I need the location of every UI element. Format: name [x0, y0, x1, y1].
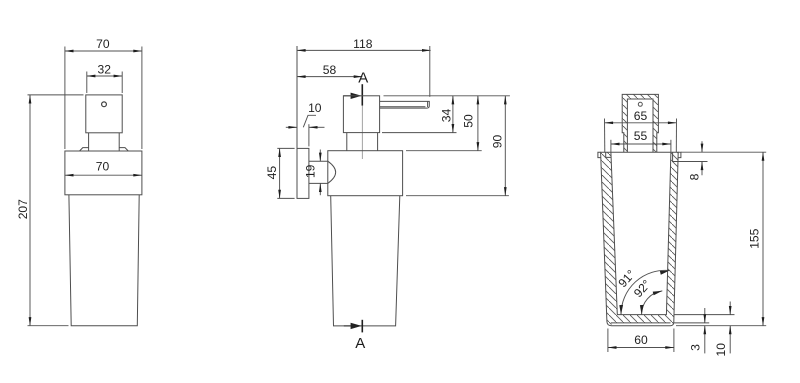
dim 70 collar line: [65, 174, 142, 176]
dim 3 arrow bottom: [704, 326, 706, 354]
dim 32 line: [87, 75, 122, 77]
extension line left of 32: [86, 72, 88, 94]
extension line right of 32: [121, 72, 123, 94]
collar side: [328, 151, 403, 196]
dim 60 line: [608, 347, 674, 349]
svg-text:A: A: [358, 70, 368, 87]
dim 8 arrow bottom: [701, 162, 703, 176]
section arrow bottom: [351, 323, 362, 329]
svg-text:60: 60: [634, 333, 648, 347]
dim 10 arrow top: [729, 302, 731, 315]
extension recess right: [674, 322, 709, 324]
dim 55 line: [611, 143, 671, 145]
svg-text:8: 8: [687, 173, 701, 180]
wall plate: [297, 148, 309, 198]
spout: [380, 101, 430, 108]
extension floor right: [674, 314, 735, 316]
dim 90 line: [504, 96, 506, 196]
pump neck side: [347, 133, 378, 151]
dim 50 line: [477, 96, 479, 151]
extension line spout tip: [429, 46, 431, 97]
svg-text:90: 90: [490, 135, 504, 149]
extension bottom right long: [676, 325, 766, 327]
svg-text:65: 65: [634, 109, 648, 123]
body side: [331, 196, 400, 326]
angle 91 arrow top: [660, 271, 670, 275]
svg-text:19: 19: [304, 164, 318, 178]
svg-text:70: 70: [96, 160, 110, 174]
extension head top right: [384, 95, 510, 97]
pump head hole section: [638, 102, 642, 106]
dim 155 line: [762, 152, 764, 326]
flange bump right: [119, 148, 128, 151]
dim 10 arrow bottom: [729, 326, 731, 354]
body: [69, 195, 139, 326]
dim 207 line: [29, 95, 31, 326]
svg-text:55: 55: [634, 129, 648, 143]
svg-text:155: 155: [747, 228, 761, 248]
section line top: [361, 84, 363, 105]
section line bottom: [361, 320, 363, 333]
extension 65 left: [604, 119, 606, 153]
section arrow top: [351, 93, 362, 99]
angle 92 arc: [642, 291, 663, 315]
dim 10 leader: [303, 115, 316, 127]
vessel bottom recess line: [611, 322, 671, 324]
pump head hole: [102, 102, 107, 107]
extension step right: [678, 161, 707, 163]
pump head material hatch: [622, 94, 658, 152]
rim tab left: [598, 152, 601, 157]
pump head section outline: [622, 94, 658, 152]
extension 55 right: [670, 140, 672, 152]
vessel outer shell: [601, 152, 679, 326]
dim 45 line: [279, 148, 281, 198]
pump head cavity outline: [627, 99, 653, 152]
svg-text:207: 207: [16, 199, 30, 219]
pump neck: [89, 133, 120, 151]
extension line right of 70: [141, 47, 143, 150]
vessel cavity: [611, 152, 671, 314]
dim 19 arrow bottom: [319, 183, 321, 195]
svg-text:34: 34: [440, 109, 454, 123]
svg-text:10: 10: [308, 101, 322, 115]
svg-text:A: A: [355, 335, 365, 352]
dim 34 line: [452, 96, 454, 133]
extension head bottom right: [382, 132, 457, 134]
extension 55 left: [610, 140, 612, 152]
extension line left of 70: [64, 47, 66, 150]
dim 10 arrow right: [309, 126, 325, 128]
pump head side: [343, 96, 379, 133]
dim 10 arrow left: [286, 126, 297, 128]
dim 65 line: [605, 122, 677, 124]
extension collar bottom right: [406, 195, 509, 197]
plate right extension: [308, 124, 310, 146]
svg-text:118: 118: [353, 37, 373, 51]
svg-text:50: 50: [462, 114, 476, 128]
rim notch left: [606, 152, 611, 157]
pump head: [86, 95, 122, 133]
angle 91 arc: [621, 270, 670, 314]
svg-text:10: 10: [714, 343, 728, 357]
svg-text:45: 45: [265, 166, 279, 180]
extension 60 left: [607, 329, 609, 353]
extension rim top right: [681, 151, 766, 153]
svg-text:32: 32: [97, 63, 111, 77]
extension collar top right: [406, 150, 482, 152]
rim tab right: [678, 152, 681, 157]
dim 19 arrow top: [319, 150, 321, 162]
vessel material hatch: [601, 152, 679, 326]
extension 45 top: [277, 147, 294, 149]
collar: [65, 151, 142, 195]
svg-text:3: 3: [689, 344, 703, 351]
dim 8 arrow top: [701, 141, 703, 152]
dim 118 line: [297, 49, 431, 51]
extension 65 right: [675, 119, 677, 153]
dim 58 line: [297, 76, 362, 78]
extension line top of 207: [28, 94, 84, 96]
bracket clip arc: [328, 161, 336, 183]
extension 45 bottom: [277, 197, 294, 199]
rim step right: [673, 152, 678, 161]
angle 91 arrow bottom: [619, 305, 623, 315]
dim 3 arrow top: [704, 308, 706, 323]
section centerline: [361, 106, 363, 159]
dim 70 top line: [65, 50, 142, 52]
angle 92 arrow top: [653, 291, 663, 295]
angle 92 arrow bottom: [640, 305, 644, 315]
wall plate left edge and extension: [296, 46, 298, 198]
bracket arm: [309, 161, 328, 183]
extension 60 right: [673, 329, 675, 353]
svg-text:58: 58: [323, 63, 337, 77]
extension line bottom of 207: [28, 325, 69, 327]
svg-text:70: 70: [96, 37, 110, 51]
flange bump left: [80, 148, 89, 151]
